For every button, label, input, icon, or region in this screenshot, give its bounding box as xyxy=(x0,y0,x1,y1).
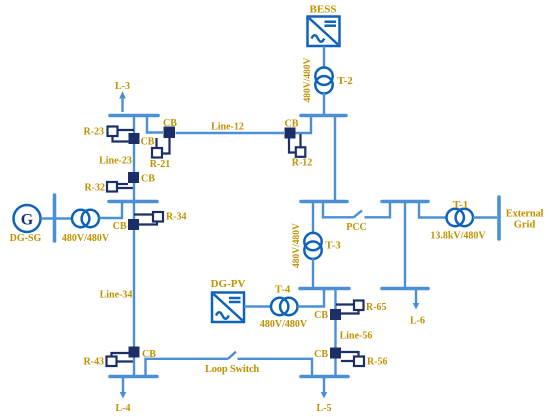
svg-text:R-43: R-43 xyxy=(83,357,104,368)
circuit breaker CB (bus3/Line-12) xyxy=(164,127,176,139)
wire bus 2 to PCC bus xyxy=(334,117,336,200)
svg-text:Line-12: Line-12 xyxy=(211,122,244,133)
svg-text:R-34: R-34 xyxy=(166,212,187,223)
circuit breaker CB (bus2/Line-12) xyxy=(285,128,296,139)
wire bus SG to CB (Line-34) xyxy=(133,203,135,219)
bus DG-SG xyxy=(53,195,57,241)
wire CB to bus 5 xyxy=(334,359,336,376)
svg-text:R-32: R-32 xyxy=(84,183,105,194)
relay link R-56 xyxy=(341,352,359,361)
wire Line-56 xyxy=(334,320,336,348)
relay link R-32 xyxy=(117,184,134,188)
svg-text:480V/480V: 480V/480V xyxy=(260,319,308,330)
wire BESS to T-2 xyxy=(323,46,325,69)
svg-text:G: G xyxy=(21,212,34,229)
generator G (DG-SG) xyxy=(14,205,41,232)
svg-text:T-2: T-2 xyxy=(337,75,353,87)
inverter BESS xyxy=(308,17,340,47)
relay R-34 xyxy=(153,212,163,222)
wire Line-34 xyxy=(133,230,135,347)
svg-text:R-12: R-12 xyxy=(292,158,313,169)
relay link R-21 xyxy=(157,138,170,154)
wire PCC switch left xyxy=(323,203,354,217)
circuit breaker CB (bus SG bottom) xyxy=(128,219,139,230)
wire T-2 to bus 2 xyxy=(323,93,325,114)
svg-text:CB: CB xyxy=(163,118,177,129)
transformer T-3 xyxy=(304,233,321,259)
wire DG-PV to T-4 xyxy=(244,305,272,307)
bus External Grid xyxy=(497,197,501,239)
wire T-3 to bus 6 xyxy=(312,259,314,288)
svg-text:L-6: L-6 xyxy=(410,316,425,327)
bus 3 xyxy=(110,114,158,118)
relay link R-65 xyxy=(336,305,359,314)
svg-text:R-65: R-65 xyxy=(366,302,387,313)
wire CB to bus 4 xyxy=(133,358,135,376)
svg-text:Loop Switch: Loop Switch xyxy=(205,364,259,375)
wire bus 3 to CB (Line-23) xyxy=(133,117,135,133)
circuit breaker CB (bus4) xyxy=(129,347,140,358)
relay R-65 xyxy=(354,301,364,311)
relay R-32 xyxy=(107,182,117,192)
circuit breaker CB (bus6/Line-56) xyxy=(330,309,341,320)
wire T-4 to bus 6 xyxy=(298,290,325,307)
load arrow L-5 xyxy=(321,378,328,399)
svg-text:13.8kV/480V: 13.8kV/480V xyxy=(430,231,486,242)
wire PCC switch right xyxy=(365,203,391,217)
svg-text:T-4: T-4 xyxy=(275,284,291,296)
bus PCC left xyxy=(301,200,347,204)
wire Line-12 xyxy=(176,132,285,134)
svg-text:L-5: L-5 xyxy=(317,403,332,414)
transformer T-1 xyxy=(447,209,473,226)
svg-text:DG-SG: DG-SG xyxy=(10,233,42,244)
wire bus 6 to CB (Line-56) xyxy=(334,290,336,309)
bus 5 xyxy=(301,375,348,379)
wire CB to bus SG xyxy=(133,183,135,200)
transformer T-2 xyxy=(315,68,332,94)
bus SG xyxy=(109,200,157,204)
transformer DG-SG xyxy=(72,210,99,227)
relay R-23 xyxy=(108,127,118,137)
bus 4 xyxy=(110,375,157,379)
svg-text:Grid: Grid xyxy=(514,220,536,231)
svg-text:CB: CB xyxy=(141,174,155,185)
svg-text:R-21: R-21 xyxy=(150,159,171,170)
transformer T-4 xyxy=(271,298,297,315)
svg-text:CB: CB xyxy=(285,119,299,130)
relay link R-43 xyxy=(112,353,135,362)
svg-text:T-1: T-1 xyxy=(453,199,469,211)
svg-text:480V/480V: 480V/480V xyxy=(62,233,110,244)
svg-text:BESS: BESS xyxy=(310,4,337,16)
load arrow L-6 xyxy=(413,290,420,310)
svg-text:CB: CB xyxy=(141,137,155,148)
svg-text:R-56: R-56 xyxy=(367,357,388,368)
svg-text:CB: CB xyxy=(314,349,328,360)
circuit breaker CB (bus5) xyxy=(330,348,341,359)
circuit breaker CB (bus SG top) xyxy=(128,172,139,183)
circuit breaker CB (bus3/Line-23) xyxy=(129,133,140,144)
relay R-43 xyxy=(107,357,117,367)
relay R-21 xyxy=(152,148,162,158)
svg-text:480V/480V: 480V/480V xyxy=(292,223,302,268)
load arrow L-3 xyxy=(119,91,126,112)
wire T-1 to external grid xyxy=(473,216,497,218)
svg-text:R-23: R-23 xyxy=(83,127,104,138)
wire PCC right bus down to bus L-6 xyxy=(404,203,406,287)
wire transformer to bus SG xyxy=(100,203,123,218)
wire PCC bus to T-3 xyxy=(312,203,314,234)
svg-text:CB: CB xyxy=(113,221,127,232)
relay link R-12 xyxy=(289,134,301,153)
switch blade (PCC) xyxy=(354,210,363,217)
svg-text:L-3: L-3 xyxy=(115,81,130,92)
svg-text:PCC: PCC xyxy=(346,222,367,233)
svg-text:External: External xyxy=(506,209,544,220)
wire loop switch right xyxy=(238,359,313,375)
wire loop switch left xyxy=(146,359,229,375)
wire bus 2 to CB (Line-12 end) xyxy=(295,116,311,133)
bus L-6 xyxy=(382,287,428,291)
svg-text:Line-56: Line-56 xyxy=(340,331,373,342)
wire PCC bus to T-1 xyxy=(419,203,447,218)
bus 2 xyxy=(301,114,346,118)
svg-text:DG-PV: DG-PV xyxy=(211,278,246,290)
relay R-56 xyxy=(354,357,364,367)
svg-text:T-3: T-3 xyxy=(325,240,341,252)
bus 6 (PV bus) xyxy=(300,287,349,291)
label External Grid xyxy=(506,209,544,231)
svg-text:Line-34: Line-34 xyxy=(100,290,133,301)
inverter DG-PV xyxy=(212,293,244,323)
relay link R-23 xyxy=(113,130,135,142)
bus PCC right xyxy=(382,200,428,204)
svg-text:Line-23: Line-23 xyxy=(99,156,132,167)
wire G to transformer xyxy=(41,217,73,219)
svg-text:L-4: L-4 xyxy=(116,403,131,414)
relay link R-34 xyxy=(134,215,157,225)
svg-text:CB: CB xyxy=(314,310,328,321)
svg-text:480V/480V: 480V/480V xyxy=(303,57,313,102)
load arrow L-4 xyxy=(120,378,127,399)
wire bus 3 to CB (Line-12 start) xyxy=(147,116,163,133)
switch blade (loop switch) xyxy=(228,352,236,359)
relay R-12 xyxy=(296,147,306,157)
wire Line-23 xyxy=(133,144,135,172)
